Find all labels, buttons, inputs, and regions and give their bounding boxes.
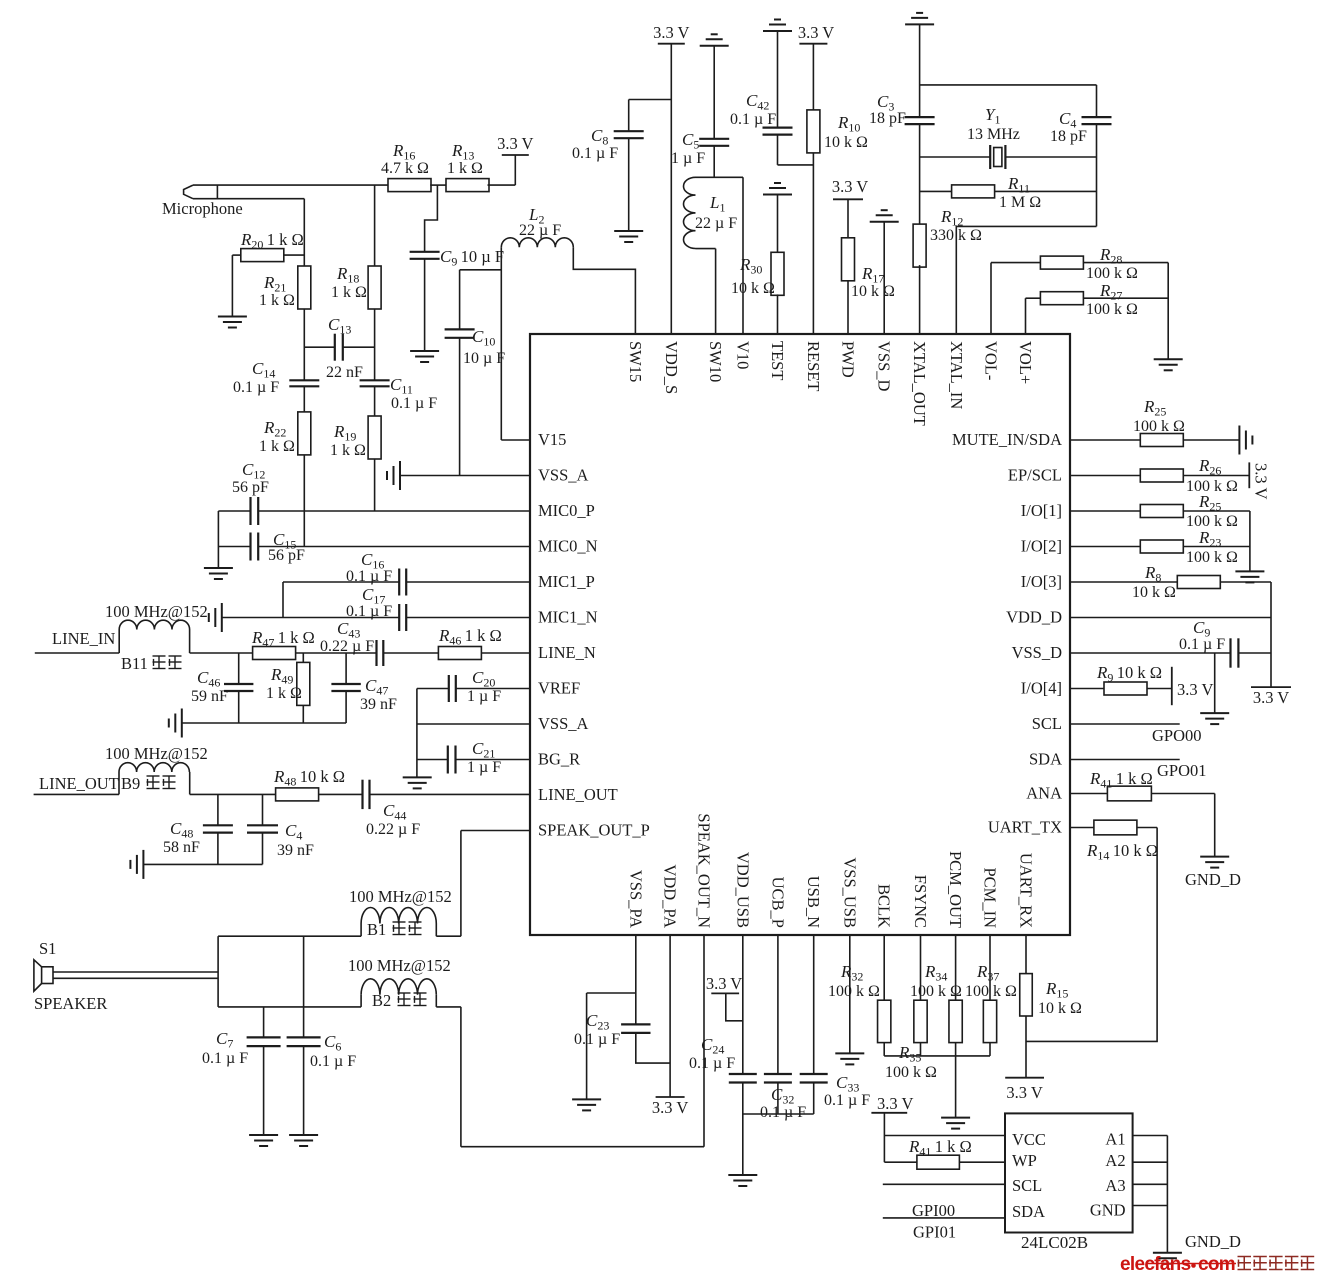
label R10 value: [824, 134, 868, 151]
ground: [763, 183, 792, 195]
svg-text:100 k Ω: 100 k Ω: [1086, 265, 1138, 282]
wire: [573, 247, 635, 334]
svg-text:C9 10 µ F: C9 10 µ F: [440, 247, 504, 269]
IC U1 main chip body: [530, 334, 1070, 935]
pin label PCM_OUT: [946, 851, 965, 928]
pin label RESET: [804, 341, 823, 391]
label C14 value: [233, 379, 279, 396]
wire: [53, 977, 218, 979]
resistor R30: [771, 252, 784, 295]
inductor L1: [684, 177, 696, 248]
label R35: [898, 1043, 921, 1065]
svg-text:R9 10 k Ω: R9 10 k Ω: [1096, 663, 1162, 685]
ground: [1235, 571, 1264, 582]
svg-text:I/O[3]: I/O[3]: [1021, 572, 1062, 591]
svg-text:100 k Ω: 100 k Ω: [965, 983, 1017, 1000]
pin label VSS_A: [538, 466, 589, 485]
svg-text:0.1 µ F: 0.1 µ F: [730, 111, 776, 128]
label R18 value: [331, 284, 367, 301]
inductor L2: [501, 238, 573, 248]
wire: [1026, 297, 1041, 299]
label R15: [1045, 979, 1068, 1001]
svg-text:VDD_USB: VDD_USB: [733, 852, 752, 928]
svg-text:10 k Ω: 10 k Ω: [1132, 584, 1176, 601]
capacitor C13: [335, 334, 343, 361]
pin label MIC1_P: [538, 572, 595, 591]
label C8: [591, 126, 608, 148]
svg-text:GND_D: GND_D: [1185, 1232, 1241, 1251]
label C13 value: [326, 364, 363, 381]
wire: [920, 156, 991, 158]
wire: [263, 1046, 265, 1135]
resistor R46: [438, 647, 481, 660]
label R41: [1089, 769, 1153, 791]
svg-text:0.1 µ F: 0.1 µ F: [1179, 636, 1225, 653]
resistor R12: [913, 224, 926, 267]
wire: [777, 1083, 779, 1115]
label R12 value: [930, 227, 982, 244]
wire: [920, 84, 1097, 86]
svg-text:GPI00: GPI00: [912, 1201, 955, 1220]
pin label EP/SCL: [1008, 466, 1062, 485]
wire: [374, 459, 376, 511]
resistor R19: [368, 416, 381, 459]
svg-text:MIC0_N: MIC0_N: [538, 537, 598, 556]
pin label A1: [1105, 1130, 1125, 1149]
svg-text:3.3 V: 3.3 V: [706, 974, 742, 993]
label R34 value: [910, 983, 962, 1000]
wire: [283, 581, 399, 583]
svg-text:LINE_OUT: LINE_OUT: [39, 774, 119, 793]
capacitor C21: [448, 746, 456, 774]
resistor R8: [1177, 576, 1220, 589]
label C32 value: [760, 1104, 806, 1121]
svg-text:100 k Ω: 100 k Ω: [828, 983, 880, 1000]
pin label SCL: [1032, 714, 1062, 733]
svg-text:VSS_A: VSS_A: [538, 714, 589, 733]
svg-text:SW10: SW10: [706, 341, 725, 382]
pin label PWD: [839, 341, 858, 378]
svg-text:0.1 µ F: 0.1 µ F: [391, 395, 437, 412]
wire: [713, 146, 715, 178]
label R22 value: [259, 438, 295, 455]
ground: [209, 603, 222, 632]
pin label SCL(eeprom): [1012, 1176, 1042, 1195]
wire: [370, 793, 531, 795]
pin label LINE_N: [538, 643, 596, 662]
pin label WP: [1012, 1151, 1037, 1170]
wire: [35, 652, 119, 654]
wire: [1096, 124, 1098, 226]
wire: [304, 346, 335, 348]
pin label A3: [1105, 1176, 1125, 1195]
wire: [460, 831, 462, 937]
capacitor C10: [445, 329, 475, 337]
svg-text:LINE_N: LINE_N: [538, 643, 596, 662]
label R20: [240, 230, 304, 252]
wire: [1070, 510, 1140, 512]
label B1: [367, 920, 422, 939]
label R26: [1198, 456, 1221, 478]
wire: [1070, 475, 1140, 477]
svg-text:GPO01: GPO01: [1157, 761, 1207, 780]
power 3.3V: [652, 1097, 688, 1117]
svg-text:100 MHz@152: 100 MHz@152: [105, 744, 208, 763]
pin label XTAL_IN: [947, 341, 966, 409]
power 3.3V R10: [798, 23, 834, 44]
svg-text:3.3 V: 3.3 V: [653, 23, 689, 42]
ground: [1239, 426, 1252, 455]
label R16 value: [381, 160, 429, 177]
capacitor C3: [905, 117, 935, 124]
svg-text:VDD_S: VDD_S: [662, 341, 681, 394]
wire: [374, 309, 376, 380]
svg-text:0.1 µ F: 0.1 µ F: [202, 1050, 248, 1067]
svg-text:0.1 µ F: 0.1 µ F: [572, 145, 618, 162]
label R37: [976, 962, 999, 984]
wire: [34, 793, 119, 795]
label R17 value: [851, 283, 895, 300]
wire: [777, 294, 779, 334]
pin label BG_R: [538, 750, 580, 769]
svg-text:3.3 V: 3.3 V: [832, 177, 868, 196]
resistor R26: [1140, 469, 1183, 482]
label R19: [333, 422, 356, 444]
label C4b: [285, 821, 302, 843]
wire: [1147, 688, 1172, 690]
wire: [436, 1006, 461, 1008]
wire: [218, 935, 361, 937]
wire: [883, 1217, 1005, 1219]
svg-text:SCL: SCL: [1012, 1176, 1042, 1195]
wire: [1270, 582, 1272, 687]
resistor R48: [276, 788, 319, 801]
svg-text:PWD: PWD: [839, 341, 858, 378]
label R35 value: [885, 1064, 937, 1081]
wire: [460, 1007, 462, 1147]
resistor R9: [1104, 682, 1147, 695]
svg-text:VCC: VCC: [1012, 1130, 1046, 1149]
resistor R11: [952, 185, 995, 198]
label C3: [877, 92, 894, 114]
pin label VDD_PA: [661, 864, 680, 928]
wire: [417, 688, 449, 690]
resistor R18: [368, 266, 381, 309]
ferrite bead B1: [361, 908, 436, 924]
microphone connector: [184, 185, 218, 199]
wire: [1238, 652, 1271, 654]
wire: [883, 222, 885, 334]
svg-text:1 k Ω: 1 k Ω: [266, 685, 302, 702]
wire: [461, 830, 530, 832]
wire: [628, 100, 630, 132]
svg-text:56 pF: 56 pF: [268, 547, 305, 564]
svg-text:18 pF: 18 pF: [1050, 128, 1087, 145]
resistor R16: [388, 179, 431, 192]
pin label VDD_D: [1006, 608, 1062, 627]
label C12: [242, 460, 265, 482]
svg-text:39 nF: 39 nF: [277, 842, 314, 859]
label R25: [1143, 397, 1166, 419]
svg-text:0.22 µ F: 0.22 µ F: [366, 821, 420, 838]
svg-text:VSS_D: VSS_D: [875, 341, 894, 392]
label C46: [197, 668, 220, 690]
svg-text:3.3 V: 3.3 V: [1253, 688, 1289, 707]
svg-text:PCM_OUT: PCM_OUT: [946, 851, 965, 928]
wire: [424, 259, 426, 351]
svg-text:1 µ F: 1 µ F: [671, 150, 705, 167]
svg-text:B1: B1: [367, 920, 386, 939]
wire: [1220, 581, 1271, 583]
label R13: [451, 141, 474, 163]
wire: [501, 439, 530, 441]
ground: [614, 231, 643, 242]
label Microphone: [162, 199, 243, 218]
wire: [345, 691, 347, 723]
label R10: [837, 113, 860, 135]
svg-text:100 k Ω: 100 k Ω: [885, 1064, 937, 1081]
pin label A2: [1105, 1151, 1125, 1170]
resistor R15: [1020, 974, 1033, 1016]
svg-text:com: com: [1198, 1254, 1235, 1275]
svg-text:1 µ F: 1 µ F: [467, 759, 501, 776]
label C16: [361, 550, 384, 572]
wire: [193, 184, 388, 186]
wire: [991, 262, 1040, 264]
capacitor C4 (line out): [247, 825, 278, 832]
pin label TEST: [768, 341, 787, 380]
power 3.3V R17: [832, 177, 868, 199]
pin label SW10: [706, 341, 725, 382]
label R14: [1086, 841, 1158, 863]
label SPEAKER: [34, 994, 107, 1013]
wire: [1137, 827, 1157, 829]
label R25b: [1198, 492, 1221, 514]
pin label VCC: [1012, 1130, 1046, 1149]
pin label VSS_D: [875, 341, 894, 392]
label R8 value: [1132, 584, 1176, 601]
svg-text:10 k Ω: 10 k Ω: [851, 283, 895, 300]
wire: [884, 1161, 917, 1163]
wire: [884, 1135, 1005, 1137]
ground: [387, 461, 400, 490]
wire: [430, 184, 446, 186]
resistor R41: [1107, 786, 1151, 801]
label C20 value: [467, 688, 501, 705]
svg-text:39 nF: 39 nF: [360, 696, 397, 713]
capacitor C8: [614, 131, 644, 138]
svg-text:4.7 k Ω: 4.7 k Ω: [381, 160, 429, 177]
svg-text:0.1 µ F: 0.1 µ F: [310, 1053, 356, 1070]
label C44 value: [366, 821, 420, 838]
power 3.3V R13: [497, 134, 533, 155]
ground: [204, 568, 233, 579]
label R22: [263, 418, 286, 440]
ground: [1153, 1253, 1182, 1264]
power label 3.3V R26: [1252, 463, 1271, 499]
wire: [425, 185, 438, 252]
pin label VREF: [538, 679, 580, 698]
svg-text:I/O[2]: I/O[2]: [1021, 537, 1062, 556]
ferrite bead B11: [119, 620, 189, 629]
label S1: [39, 939, 56, 958]
resistor R47: [253, 647, 296, 660]
label GND_D eeprom: [1185, 1232, 1241, 1251]
svg-text:100 k Ω: 100 k Ω: [1086, 301, 1138, 318]
label C46 value: [191, 688, 228, 705]
svg-text:SW15: SW15: [626, 341, 645, 382]
wire: [955, 1043, 957, 1118]
wire: [459, 338, 461, 476]
wire: [460, 269, 502, 271]
pin label ANA: [1026, 784, 1062, 803]
svg-text:GND: GND: [1090, 1201, 1126, 1220]
ground: [130, 850, 143, 879]
svg-text:B2: B2: [372, 991, 391, 1010]
power 3.3V R9: [1172, 667, 1214, 705]
svg-text:USB_N: USB_N: [804, 876, 823, 928]
label R32 value: [828, 983, 880, 1000]
wire: [883, 1043, 885, 1056]
label C23 value: [574, 1031, 620, 1048]
wire: [884, 1055, 990, 1057]
svg-text:10 k Ω: 10 k Ω: [1038, 1000, 1082, 1017]
wire: [1183, 546, 1250, 548]
label C10 value: [463, 350, 505, 367]
svg-text:R41 1 k Ω: R41 1 k Ω: [908, 1137, 972, 1159]
label C24: [701, 1035, 724, 1057]
pin label MIC1_N: [538, 608, 598, 627]
svg-text:10 µ F: 10 µ F: [463, 350, 505, 367]
ground: [763, 20, 792, 32]
label R27 value: [1086, 301, 1138, 318]
logo elecfans.com: [1120, 1254, 1314, 1275]
wire: [813, 1083, 815, 1115]
label R34: [924, 962, 947, 984]
wire: [989, 935, 991, 1000]
ground: [700, 34, 729, 46]
wire: [345, 653, 347, 684]
ferrite bead B2: [361, 979, 436, 995]
wire: [919, 265, 921, 334]
resistor R32: [878, 1000, 891, 1042]
svg-text:330 k Ω: 330 k Ω: [930, 227, 982, 244]
pin label V15: [538, 430, 566, 449]
svg-text:0.1 µ F: 0.1 µ F: [689, 1055, 735, 1072]
label C33: [836, 1073, 859, 1095]
svg-text:0.1 µ F: 0.1 µ F: [346, 603, 392, 620]
wire: [189, 772, 191, 794]
label R23 value: [1186, 549, 1238, 566]
wire: [360, 995, 362, 1007]
svg-text:R41 1 k Ω: R41 1 k Ω: [1089, 769, 1153, 791]
label C3 value: [869, 110, 906, 127]
capacitor C11: [360, 380, 390, 386]
label B9: [121, 774, 176, 793]
pin label VOL+: [1016, 341, 1035, 384]
pin label SDA(eeprom): [1012, 1202, 1045, 1221]
label R11 value: [999, 194, 1041, 211]
svg-text:100 k Ω: 100 k Ω: [910, 983, 962, 1000]
capacitor C24: [729, 1074, 757, 1083]
label C9b: [1193, 618, 1210, 640]
resistor R10: [807, 110, 820, 153]
wire: [1249, 511, 1251, 571]
wire: [217, 511, 219, 568]
svg-text:PCM_IN: PCM_IN: [981, 867, 1000, 928]
power 3.3V R26: [1248, 462, 1250, 488]
wire: [238, 691, 240, 723]
label LINE_OUT: [39, 774, 119, 793]
resistor R21: [298, 266, 311, 309]
wire: [302, 653, 304, 662]
capacitor C6: [287, 1037, 321, 1046]
svg-text:S1: S1: [39, 939, 56, 958]
wire: [218, 510, 250, 512]
svg-text:3.3 V: 3.3 V: [1177, 680, 1213, 699]
power 3.3V VDD_USB: [706, 974, 742, 993]
svg-text:1 k Ω: 1 k Ω: [331, 284, 367, 301]
svg-text:13 MHz: 13 MHz: [967, 126, 1020, 143]
wire: [1070, 581, 1177, 583]
ground: [835, 1053, 864, 1064]
wire: [847, 281, 849, 334]
wire: [514, 155, 516, 185]
label C4: [1059, 109, 1076, 131]
wire: [1070, 688, 1104, 690]
resistor R35: [949, 1000, 962, 1042]
wire: [118, 630, 120, 654]
wire: [374, 386, 376, 416]
pin label VSS_A2: [538, 714, 589, 733]
wire: [812, 44, 814, 110]
svg-text:3.3 V: 3.3 V: [652, 1098, 688, 1117]
svg-text:100 k Ω: 100 k Ω: [1186, 513, 1238, 530]
svg-text:GPO00: GPO00: [1152, 726, 1202, 745]
label R11: [1007, 174, 1030, 196]
wire: [1183, 439, 1239, 441]
wire: [1214, 794, 1216, 857]
pin label PCM_IN: [981, 867, 1000, 928]
svg-text:VDD_PA: VDD_PA: [661, 864, 680, 928]
wire: [742, 1083, 744, 1176]
ground: [1154, 359, 1183, 370]
capacitor C33: [800, 1074, 828, 1083]
svg-text:0.1 µ F: 0.1 µ F: [760, 1104, 806, 1121]
label L2: [528, 205, 544, 227]
label 24LC02B: [1021, 1233, 1088, 1252]
capacitor C9: [410, 252, 440, 259]
label C20: [472, 668, 495, 690]
svg-text:SPEAK_OUT_N: SPEAK_OUT_N: [695, 813, 714, 928]
wire: [416, 689, 418, 778]
svg-text:R20 1 k Ω: R20 1 k Ω: [240, 230, 304, 252]
wire: [1025, 1016, 1027, 1078]
svg-text:1 k Ω: 1 k Ω: [447, 160, 483, 177]
wire: [374, 185, 376, 266]
wire: [303, 309, 305, 380]
wire: [1167, 263, 1169, 360]
svg-text:3.3 V: 3.3 V: [1252, 463, 1271, 499]
label C43: [337, 619, 360, 641]
svg-text:I/O[1]: I/O[1]: [1021, 501, 1062, 520]
wire: [1070, 793, 1107, 795]
wire: [232, 254, 240, 256]
capacitor C44: [363, 780, 370, 809]
svg-text:GPI01: GPI01: [913, 1223, 956, 1242]
svg-text:1 µ F: 1 µ F: [467, 688, 501, 705]
pin label MUTE_IN/SDA: [952, 430, 1062, 449]
